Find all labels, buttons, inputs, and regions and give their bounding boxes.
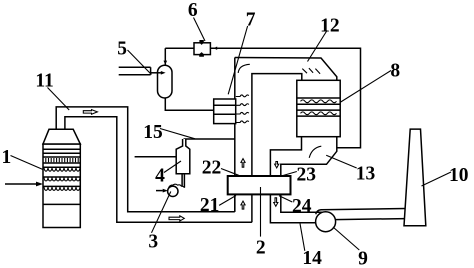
svg-text:21: 21	[200, 195, 220, 216]
svg-text:6: 6	[188, 0, 198, 21]
svg-text:22: 22	[202, 157, 222, 178]
svg-text:10: 10	[449, 165, 469, 186]
svg-text:11: 11	[35, 70, 53, 91]
svg-text:8: 8	[390, 61, 400, 82]
svg-text:1: 1	[2, 147, 12, 168]
svg-text:14: 14	[302, 248, 322, 268]
svg-text:5: 5	[117, 38, 127, 59]
svg-text:15: 15	[143, 122, 163, 143]
svg-text:2: 2	[256, 238, 266, 259]
svg-text:24: 24	[292, 196, 312, 217]
svg-text:3: 3	[148, 232, 158, 253]
svg-text:9: 9	[358, 249, 368, 268]
svg-text:7: 7	[246, 9, 256, 30]
svg-text:13: 13	[356, 163, 376, 184]
svg-text:12: 12	[320, 15, 340, 36]
svg-text:23: 23	[296, 164, 316, 185]
svg-text:4: 4	[155, 166, 165, 187]
